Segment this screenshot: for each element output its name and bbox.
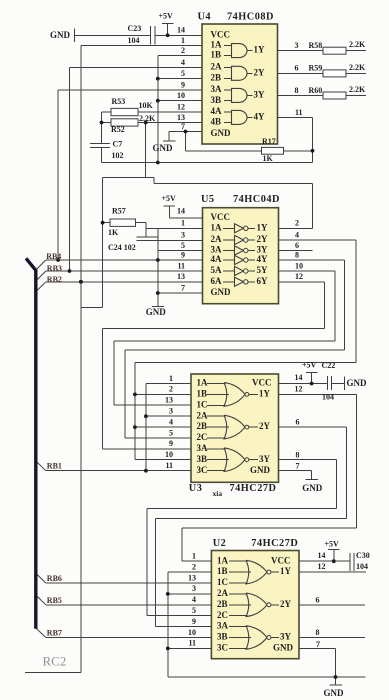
svg-text:R52: R52 <box>111 125 125 134</box>
svg-text:11: 11 <box>295 108 303 117</box>
svg-text:5: 5 <box>181 241 185 250</box>
svg-text:7: 7 <box>181 283 185 292</box>
svg-text:U3: U3 <box>189 483 203 494</box>
svg-text:2: 2 <box>169 385 173 394</box>
svg-text:VCC: VCC <box>271 555 291 565</box>
svg-text:6Y: 6Y <box>257 276 269 286</box>
svg-text:3A: 3A <box>211 245 223 255</box>
svg-text:2B: 2B <box>211 73 222 83</box>
svg-text:+5V: +5V <box>159 11 174 20</box>
svg-text:4Y: 4Y <box>254 112 266 122</box>
svg-text:VCC: VCC <box>211 212 231 222</box>
svg-text:11: 11 <box>165 461 173 470</box>
svg-text:1Y: 1Y <box>257 222 269 232</box>
svg-text:RB3: RB3 <box>47 264 62 273</box>
svg-text:RC2: RC2 <box>43 654 67 669</box>
svg-text:3: 3 <box>295 41 299 50</box>
svg-text:xia: xia <box>213 489 223 498</box>
svg-text:2B: 2B <box>197 421 208 431</box>
svg-text:2B: 2B <box>217 599 228 609</box>
svg-text:2Y: 2Y <box>257 234 269 244</box>
svg-text:74HC27D: 74HC27D <box>251 538 298 549</box>
svg-text:9: 9 <box>169 439 173 448</box>
svg-text:RB6: RB6 <box>47 574 62 583</box>
svg-text:4A: 4A <box>211 254 223 264</box>
svg-text:8: 8 <box>296 450 300 459</box>
svg-text:3Y: 3Y <box>259 454 271 464</box>
svg-text:1K: 1K <box>263 154 274 163</box>
svg-text:2.2K: 2.2K <box>349 63 366 72</box>
svg-text:1A: 1A <box>211 222 223 232</box>
svg-text:11: 11 <box>188 639 196 648</box>
svg-text:1C: 1C <box>197 399 208 409</box>
svg-text:R17: R17 <box>262 137 276 146</box>
svg-text:3B: 3B <box>217 632 228 642</box>
svg-text:74HC27D: 74HC27D <box>230 483 277 494</box>
svg-text:GND: GND <box>273 643 294 653</box>
svg-text:R58: R58 <box>309 41 323 50</box>
svg-text:5Y: 5Y <box>257 265 269 275</box>
svg-text:10K: 10K <box>139 101 154 110</box>
svg-text:4: 4 <box>169 417 173 426</box>
svg-text:74HC04D: 74HC04D <box>233 194 280 205</box>
svg-text:102: 102 <box>112 151 124 160</box>
svg-text:11: 11 <box>177 261 185 270</box>
svg-text:C7: C7 <box>113 139 123 148</box>
svg-text:2: 2 <box>295 219 299 228</box>
svg-text:14: 14 <box>295 373 303 382</box>
svg-text:3Y: 3Y <box>254 90 266 100</box>
svg-text:1: 1 <box>192 552 196 561</box>
svg-text:13: 13 <box>188 573 196 582</box>
svg-text:2C: 2C <box>197 432 208 442</box>
svg-text:C23: C23 <box>128 24 142 33</box>
svg-text:6: 6 <box>316 596 320 605</box>
svg-text:14: 14 <box>318 551 326 560</box>
svg-text:4: 4 <box>295 230 299 239</box>
svg-text:VCC: VCC <box>211 29 231 39</box>
svg-text:1A: 1A <box>217 555 229 565</box>
svg-text:1C: 1C <box>217 577 228 587</box>
svg-text:104: 104 <box>322 392 334 401</box>
svg-text:4B: 4B <box>211 117 222 127</box>
svg-text:3Y: 3Y <box>280 632 292 642</box>
svg-text:5: 5 <box>192 606 196 615</box>
svg-text:9: 9 <box>181 250 185 259</box>
svg-text:GND: GND <box>324 688 345 698</box>
svg-text:GND: GND <box>211 287 232 297</box>
svg-text:7: 7 <box>316 640 320 649</box>
svg-text:8: 8 <box>295 250 299 259</box>
svg-text:2: 2 <box>192 562 196 571</box>
svg-text:2Y: 2Y <box>254 67 266 77</box>
svg-text:+5V: +5V <box>325 540 340 549</box>
svg-text:GND: GND <box>153 143 174 153</box>
svg-text:4: 4 <box>181 58 185 67</box>
svg-text:3B: 3B <box>211 95 222 105</box>
svg-text:2.2K: 2.2K <box>139 114 156 123</box>
svg-text:8: 8 <box>316 628 320 637</box>
svg-text:13: 13 <box>177 272 185 281</box>
svg-text:+5V: +5V <box>162 194 177 203</box>
svg-text:1Y: 1Y <box>259 389 271 399</box>
svg-text:104: 104 <box>356 562 368 571</box>
svg-text:U4: U4 <box>198 12 212 23</box>
svg-text:GND: GND <box>302 483 323 493</box>
svg-text:2C: 2C <box>217 610 228 620</box>
svg-text:3Y: 3Y <box>257 245 269 255</box>
svg-text:7: 7 <box>181 122 185 131</box>
svg-text:4A: 4A <box>211 106 223 116</box>
svg-text:3C: 3C <box>217 643 228 653</box>
svg-text:10: 10 <box>295 261 303 270</box>
svg-text:1A: 1A <box>211 40 223 50</box>
svg-text:12: 12 <box>318 562 326 571</box>
svg-text:5A: 5A <box>211 265 223 275</box>
svg-text:R59: R59 <box>309 64 323 73</box>
svg-text:14: 14 <box>177 207 185 216</box>
svg-text:GND: GND <box>50 30 71 40</box>
svg-text:2Y: 2Y <box>259 421 271 431</box>
svg-text:1B: 1B <box>197 389 208 399</box>
svg-text:10: 10 <box>177 91 185 100</box>
svg-text:74HC08D: 74HC08D <box>227 12 274 23</box>
svg-text:RB5: RB5 <box>47 596 62 605</box>
svg-text:2A: 2A <box>211 234 223 244</box>
svg-text:+5V: +5V <box>302 360 317 369</box>
svg-text:2A: 2A <box>197 410 209 420</box>
svg-text:7: 7 <box>296 461 300 470</box>
svg-text:6: 6 <box>295 64 299 73</box>
svg-text:1: 1 <box>169 374 173 383</box>
svg-text:U5: U5 <box>201 194 215 205</box>
svg-text:1: 1 <box>181 219 185 228</box>
svg-text:12: 12 <box>295 272 303 281</box>
svg-text:2.2K: 2.2K <box>349 85 366 94</box>
svg-text:RB7: RB7 <box>47 629 62 638</box>
svg-text:13: 13 <box>177 113 185 122</box>
svg-text:C30: C30 <box>356 551 370 560</box>
svg-text:6A: 6A <box>211 276 223 286</box>
svg-text:R60: R60 <box>309 86 323 95</box>
svg-text:GND: GND <box>146 307 167 317</box>
svg-text:104: 104 <box>128 36 140 45</box>
svg-text:1K: 1K <box>108 228 119 237</box>
svg-text:R57: R57 <box>112 206 126 215</box>
svg-text:RB2: RB2 <box>47 275 62 284</box>
svg-text:1Y: 1Y <box>254 45 266 55</box>
svg-text:3A: 3A <box>217 621 229 631</box>
svg-text:U2: U2 <box>213 538 227 549</box>
svg-text:3B: 3B <box>197 454 208 464</box>
svg-text:R53: R53 <box>112 97 126 106</box>
svg-text:10: 10 <box>165 450 173 459</box>
svg-text:RB1: RB1 <box>47 461 62 470</box>
svg-text:12: 12 <box>177 102 185 111</box>
svg-text:4: 4 <box>192 595 196 604</box>
svg-text:6: 6 <box>295 241 299 250</box>
svg-text:GND: GND <box>347 378 368 388</box>
svg-text:2Y: 2Y <box>280 599 292 609</box>
svg-text:12: 12 <box>295 384 303 393</box>
svg-text:14: 14 <box>177 26 185 35</box>
svg-text:2: 2 <box>181 46 185 55</box>
svg-text:9: 9 <box>181 80 185 89</box>
svg-text:GND: GND <box>211 128 232 138</box>
svg-text:2A: 2A <box>217 588 229 598</box>
svg-text:5: 5 <box>181 69 185 78</box>
svg-text:6: 6 <box>296 418 300 427</box>
svg-text:1Y: 1Y <box>280 566 292 576</box>
svg-text:1B: 1B <box>217 566 228 576</box>
svg-text:10: 10 <box>188 628 196 637</box>
svg-text:C24 102: C24 102 <box>108 243 136 252</box>
svg-text:1: 1 <box>181 36 185 45</box>
svg-text:3C: 3C <box>197 465 208 475</box>
svg-text:2.2K: 2.2K <box>349 40 366 49</box>
svg-text:3A: 3A <box>211 84 223 94</box>
svg-text:GND: GND <box>250 465 271 475</box>
svg-text:3: 3 <box>181 230 185 239</box>
svg-text:13: 13 <box>165 396 173 405</box>
svg-text:RB4: RB4 <box>46 252 61 261</box>
svg-text:1A: 1A <box>197 378 209 388</box>
svg-text:8: 8 <box>295 86 299 95</box>
svg-text:C22: C22 <box>322 361 336 370</box>
svg-text:VCC: VCC <box>252 378 272 388</box>
svg-text:5: 5 <box>169 428 173 437</box>
svg-text:3: 3 <box>192 584 196 593</box>
svg-text:4Y: 4Y <box>257 254 269 264</box>
svg-text:1B: 1B <box>211 50 222 60</box>
svg-text:9: 9 <box>192 617 196 626</box>
svg-text:3: 3 <box>169 407 173 416</box>
svg-text:2A: 2A <box>211 62 223 72</box>
svg-text:3A: 3A <box>197 443 209 453</box>
